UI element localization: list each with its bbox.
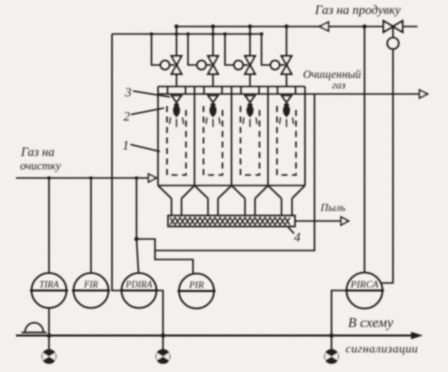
vessel 1 purge drop <box>152 34 161 65</box>
vessel 4 purge drop <box>262 34 271 65</box>
bag 1 vessel 1 (dashed) <box>167 106 186 175</box>
hopper vessel 3 <box>232 186 269 216</box>
ejector vessel 2 <box>209 103 216 118</box>
junction dots <box>47 176 139 241</box>
purge manifold pipe (Газ на продувку) <box>177 26 418 28</box>
impulse line to PIR <box>137 239 194 273</box>
vessel 3 valve <box>245 27 255 87</box>
junction dots purge manifold <box>150 24 367 35</box>
signal lamp HL1 <box>42 350 56 364</box>
control valve V1 body <box>384 21 403 32</box>
control valve actuator circle <box>387 27 399 50</box>
leader 2 <box>131 108 164 115</box>
blowback header <box>112 33 262 35</box>
screw conveyor 4 <box>168 216 295 227</box>
impulse line TIRA <box>48 178 50 273</box>
ejector 2 vessel 1 <box>173 103 180 118</box>
header left drop to PDIRA <box>112 34 123 291</box>
bag vessel 4 (dashed) <box>277 106 296 175</box>
vessel 2 valve <box>208 27 218 87</box>
flow arrow (left) on purge line <box>320 22 329 31</box>
signal lamp HL2 <box>156 350 170 364</box>
instrument FIR <box>72 273 110 308</box>
instrument PIRCA <box>345 273 384 309</box>
impulse line clean-gas tap <box>155 94 315 251</box>
impulse line FIR <box>90 178 92 273</box>
signal PDIRA to bus <box>158 291 163 336</box>
leader 3 <box>133 91 170 97</box>
nozzle vessel 3 <box>245 96 255 103</box>
nozzle vessel 4 <box>282 96 292 103</box>
signal line valve to PIRCA <box>381 49 393 283</box>
signal TIRA to bus <box>48 308 50 350</box>
vessel 3 purge drop <box>225 34 234 65</box>
instrument TIRA <box>30 273 68 308</box>
vessel 2 purge drop <box>188 34 197 65</box>
hopper vessel 1 <box>158 186 195 216</box>
vessel 4 purge restrictor <box>270 60 279 69</box>
vessel 4 valve <box>282 27 292 87</box>
instrument PIR <box>178 274 216 309</box>
clean gas line (Очищенный газ) <box>305 93 420 95</box>
hopper vessel 4 <box>268 186 305 216</box>
leader 1 <box>131 145 161 152</box>
bag vessel 2 (dashed) <box>204 106 223 175</box>
leader 4 <box>288 227 294 234</box>
baghouse shell <box>158 87 305 186</box>
alarm bus line (В схему сигнализации) <box>16 334 413 336</box>
impulse line PDIRA top <box>137 178 139 273</box>
spray vessel 2 <box>206 118 220 128</box>
tube sheet cell ticks <box>168 87 296 95</box>
hopper vessel 2 <box>195 186 232 216</box>
ejector vessel 3 <box>246 103 253 118</box>
vessel 1 purge restrictor <box>160 60 169 69</box>
inlet line (Газ на очистку) <box>16 177 149 179</box>
nozzle 3 vessel 1 <box>172 96 182 103</box>
signal lamp HL3 <box>325 350 339 364</box>
vessel 2 purge restrictor <box>197 60 206 69</box>
bag vessel 3 (dashed) <box>241 106 260 175</box>
vessel 3 purge restrictor <box>234 60 243 69</box>
nozzle vessel 2 <box>208 96 218 103</box>
signal PIRCA to bus <box>332 291 347 350</box>
spray vessel 3 <box>243 118 257 128</box>
instrument PDIRA <box>120 273 158 308</box>
impulse line PIRCA <box>364 27 366 273</box>
spray vessel 1 <box>170 118 184 128</box>
alarm bell <box>22 323 47 333</box>
ejector vessel 4 <box>283 103 290 118</box>
dust outlet line (Пыль) <box>295 220 341 222</box>
spray vessel 4 <box>280 118 294 128</box>
vessel 1 valve <box>172 27 182 87</box>
